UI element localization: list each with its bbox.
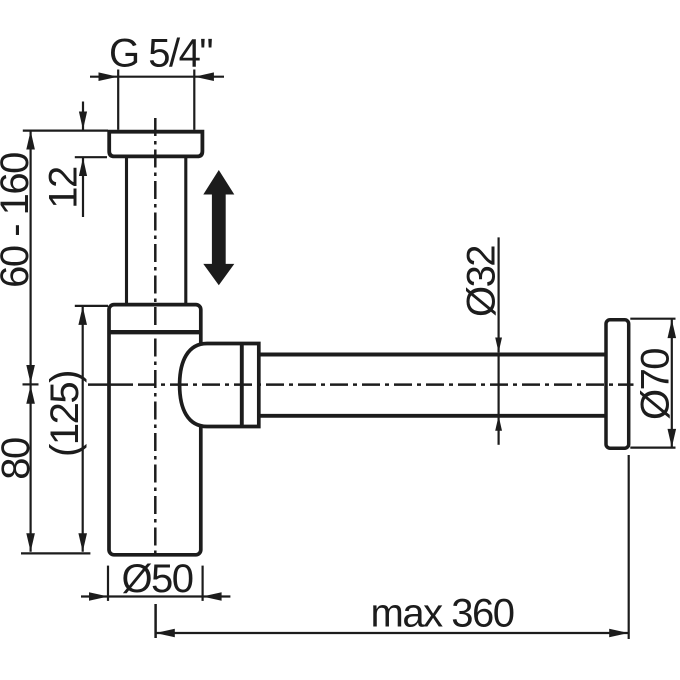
trap nut ring line <box>108 330 203 334</box>
dimension G 5/4: dimension line <box>90 76 224 78</box>
dimension O50: left extension line <box>107 566 109 601</box>
svg-text:Ø50: Ø50 <box>121 557 192 601</box>
dimension O50: dimension line <box>81 595 230 597</box>
dimension O70: bottom extension line <box>630 447 675 449</box>
dimension O70: top extension line <box>630 318 675 320</box>
dimension O50: left arrow <box>89 592 108 600</box>
wall flange <box>606 320 629 448</box>
dimension max 360: left arrow <box>156 629 175 638</box>
dimension max 360: dimension line <box>156 632 629 634</box>
dimension 80: top arrow <box>26 385 35 404</box>
dimension 80: bottom extension line <box>21 552 90 554</box>
dimension O32: lower arrow <box>495 416 502 431</box>
dimension O70: bottom arrow <box>668 429 677 448</box>
dimension O50: right extension line <box>202 566 204 601</box>
svg-text:max 360: max 360 <box>371 592 514 636</box>
dimension 60-160: bottom arrow <box>26 365 35 384</box>
outlet tube bottom wall <box>259 414 606 418</box>
vertical centerline <box>154 118 157 559</box>
dimension (125): top extension line <box>75 305 108 307</box>
svg-text:80: 80 <box>0 438 38 480</box>
svg-text:(125): (125) <box>43 371 87 457</box>
dimension 12: upper arrow <box>82 102 84 131</box>
svg-text:Ø32: Ø32 <box>460 246 504 317</box>
dimension O70: top arrow <box>668 320 677 339</box>
dimension 12: lower arrow <box>82 158 84 217</box>
svg-text:G 5/4": G 5/4" <box>109 32 212 76</box>
outlet nut ring line <box>240 344 244 427</box>
svg-text:60 - 160: 60 - 160 <box>0 153 37 288</box>
dimension O32: upper line <box>498 237 500 352</box>
svg-text:12: 12 <box>42 167 86 209</box>
dimension 60-160: dimension line <box>30 131 32 384</box>
outlet nut dome <box>180 344 259 427</box>
dimension (125): bottom arrow <box>78 533 87 552</box>
dimension 12: bottom extension line <box>75 156 107 158</box>
dimension O70: dimension line <box>671 320 673 448</box>
dimension max 360: right arrow <box>609 629 628 638</box>
dimension O32: upper arrow <box>495 338 502 353</box>
inlet pipe left wall <box>125 157 128 304</box>
top flange (G 5/4 nut) <box>109 132 202 157</box>
dimension 80: bottom arrow <box>26 533 35 552</box>
inlet pipe right wall <box>184 157 187 304</box>
dimension O32: through line <box>498 352 500 415</box>
dimension G 5/4: right arrow <box>195 72 214 81</box>
outlet tube top wall <box>259 353 606 357</box>
horizontal centerline <box>88 383 129 386</box>
dimension max 360: right extension line <box>628 455 630 639</box>
dimension 12: top extension line <box>23 130 108 132</box>
dimension (125): dimension line <box>82 306 84 552</box>
dimension G 5/4: extension lines <box>117 70 119 130</box>
dimension G 5/4: left arrow <box>99 72 118 81</box>
tick at pipe axis <box>23 383 39 385</box>
adjustability double arrow <box>203 170 234 285</box>
dimension (125): top arrow <box>78 306 87 325</box>
dimension O50: right arrow <box>202 592 221 600</box>
trap body with top nut <box>109 305 201 555</box>
dimension 60-160: top arrow <box>26 131 35 150</box>
dimension 80: dimension line <box>30 385 32 552</box>
svg-text:Ø70: Ø70 <box>634 349 678 420</box>
